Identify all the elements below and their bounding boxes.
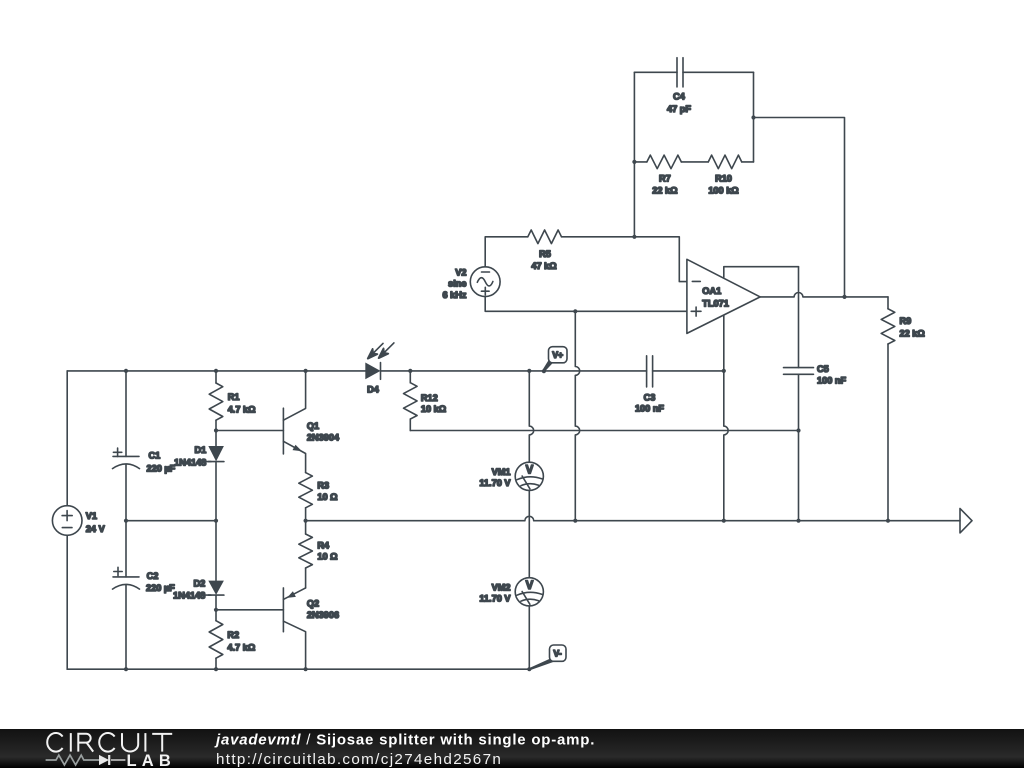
- svg-text:D2: D2: [194, 579, 206, 589]
- wire C5 column: [798, 267, 800, 521]
- svg-text:R2: R2: [227, 630, 239, 640]
- svg-text:OA1: OA1: [702, 286, 721, 296]
- junction voltmeter column / V+ rail: [527, 369, 531, 373]
- voltage source V2 sine 6 kHz: [442, 267, 500, 300]
- capacitor C4 47 pF: [667, 58, 691, 114]
- LED D4 with arrows: [365, 343, 394, 395]
- svg-text:Q2: Q2: [307, 598, 319, 608]
- node V+ flag attach: [542, 369, 546, 373]
- svg-text:1N4148: 1N4148: [173, 590, 205, 600]
- svg-text:220 µF: 220 µF: [146, 583, 175, 593]
- wire C4 feedback loop left vertical: [633, 72, 635, 237]
- svg-text:VM1: VM1: [492, 467, 511, 477]
- svg-text:D1: D1: [195, 445, 207, 455]
- junction C1-C2 / middle rail: [124, 519, 128, 523]
- svg-text:4.7 kΩ: 4.7 kΩ: [227, 642, 255, 652]
- svg-text:6 kHz: 6 kHz: [442, 290, 466, 300]
- resistor R9 22 kOhm: [881, 309, 925, 344]
- junction C2 bottom / V- rail: [124, 667, 128, 671]
- svg-text:1N4148: 1N4148: [174, 458, 206, 468]
- svg-text:VM2: VM2: [492, 582, 511, 592]
- svg-text:11.70 V: 11.70 V: [479, 478, 511, 488]
- svg-text:V2: V2: [455, 267, 466, 277]
- wire V2 to R5: [485, 237, 634, 267]
- junction R12 rail / C5 column: [796, 428, 800, 432]
- net flag V+: [543, 347, 567, 372]
- svg-text:220 µF: 220 µF: [147, 463, 176, 473]
- svg-text:47 pF: 47 pF: [667, 104, 691, 114]
- svg-text:4.7 kΩ: 4.7 kΩ: [228, 404, 256, 414]
- svg-text:R7: R7: [659, 173, 671, 183]
- svg-text:100 kΩ: 100 kΩ: [708, 186, 738, 196]
- junction Q1 collector / V+ rail: [304, 369, 308, 373]
- svg-text:TL071: TL071: [702, 298, 729, 308]
- output terminal arrow: [960, 509, 972, 533]
- svg-text:V+: V+: [552, 350, 563, 360]
- wire feedback to output: [754, 118, 845, 297]
- wire output rail (virtual ground) with hop over voltmeter column: [306, 516, 960, 520]
- svg-text:24 V: 24 V: [86, 524, 106, 534]
- svg-text:sine: sine: [448, 279, 466, 289]
- svg-text:2N3906: 2N3906: [307, 610, 339, 620]
- junction R7 left / C4 loop: [632, 160, 636, 164]
- resistor R2 4.7 kOhm: [209, 621, 255, 659]
- junction R9 bottom / output rail: [886, 519, 890, 523]
- wire C4 top branch: [634, 71, 753, 73]
- svg-text:V: V: [526, 464, 534, 476]
- junction R1 bottom / Q1 base: [214, 428, 218, 432]
- svg-text:C4: C4: [673, 92, 686, 102]
- wire R9 branch: [887, 297, 889, 521]
- voltage source V1 24 V: [52, 506, 105, 536]
- svg-text:R12: R12: [421, 393, 438, 403]
- wire voltmeter column with hop: [529, 371, 533, 669]
- resistor R5 47 kOhm: [528, 230, 562, 271]
- junction Q2 collector / V- rail: [304, 667, 308, 671]
- transistor Q2 2N3906 PNP: [283, 588, 339, 669]
- junction D2 bottom / Q2 base: [214, 608, 218, 612]
- resistor R12 10 kOhm: [404, 371, 447, 431]
- wire R7/R10 branch: [634, 161, 753, 163]
- svg-text:R5: R5: [539, 249, 551, 259]
- svg-text:http://circuitlab.com/cj274ehd: http://circuitlab.com/cj274ehd2567n: [216, 751, 502, 768]
- diode D2 1N4148: [173, 579, 224, 601]
- svg-text:22 kΩ: 22 kΩ: [652, 186, 677, 196]
- junction V2 bottom / reference vertical: [573, 309, 577, 313]
- op-amp OA1 TL071: [687, 259, 760, 333]
- transistor Q1 2N3904 NPN: [283, 371, 340, 473]
- junction V2 reference / output rail: [573, 519, 577, 523]
- svg-text:V: V: [526, 580, 534, 592]
- wire Q1 base: [216, 430, 283, 432]
- resistor R10 100 kOhm: [708, 155, 741, 196]
- wire V- bottom rail: [67, 668, 529, 670]
- capacitor C1 220 uF electrolytic: [113, 448, 176, 473]
- svg-text:11.70 V: 11.70 V: [479, 594, 511, 604]
- svg-text:10 Ω: 10 Ω: [317, 552, 337, 562]
- svg-text:R4: R4: [317, 540, 330, 550]
- wire middle rail left segment: [126, 520, 216, 522]
- svg-text:22 kΩ: 22 kΩ: [900, 328, 925, 338]
- svg-text:R3: R3: [317, 481, 329, 491]
- CircuitLab logo resistor-diode glyph: [46, 755, 126, 765]
- svg-text:C1: C1: [149, 451, 161, 461]
- junction D1-D2 / middle rail: [214, 519, 218, 523]
- svg-text:47 kΩ: 47 kΩ: [531, 261, 556, 271]
- svg-text:Q1: Q1: [307, 421, 319, 431]
- svg-text:V-: V-: [553, 649, 561, 659]
- junction R1 top / V+ rail: [214, 369, 218, 373]
- svg-text:100 nF: 100 nF: [817, 375, 846, 385]
- svg-text:100 nF: 100 nF: [635, 404, 664, 414]
- junction C4 loop right / feedback: [751, 115, 755, 119]
- svg-text:D4: D4: [367, 385, 380, 395]
- wire V+ rail (top distribution rail): [67, 370, 724, 372]
- capacitor C5 100 nF: [784, 364, 847, 386]
- capacitor C3 100 nF: [635, 356, 664, 414]
- junction R2 bottom / V- rail: [214, 667, 218, 671]
- svg-text:C2: C2: [147, 571, 159, 581]
- svg-text:R1: R1: [228, 392, 240, 402]
- junction op-amp pin column / output rail: [722, 519, 726, 523]
- svg-text:V1: V1: [86, 511, 97, 521]
- resistor R1 4.7 kOhm: [209, 383, 255, 420]
- svg-text:javadevmtl / Sijosae splitter: javadevmtl / Sijosae splitter with singl…: [214, 732, 595, 749]
- resistor R7 22 kOhm: [647, 155, 681, 196]
- wire op-amp output with hop over C5 column: [760, 292, 888, 296]
- wire inverting input route: [634, 237, 687, 282]
- junction C5 column / output rail: [796, 519, 800, 523]
- wire V1 left branch vertical: [66, 371, 68, 669]
- svg-text:C3: C3: [644, 392, 656, 402]
- wire Q2 base: [216, 609, 283, 611]
- svg-text:R9: R9: [900, 316, 912, 326]
- junction C3 right / op-amp pin column: [722, 369, 726, 373]
- voltmeter VM1 11.70 V: [479, 462, 543, 490]
- wire V2 reference vertical with hops: [575, 311, 579, 520]
- wire op-amp top pin rail: [724, 267, 799, 278]
- svg-text:C5: C5: [817, 364, 829, 374]
- voltmeter VM2 11.70 V: [479, 578, 543, 606]
- svg-text:10 kΩ: 10 kΩ: [421, 404, 446, 414]
- junction R3-R4 / output rail: [304, 519, 308, 523]
- wire R12 bottom rail: [410, 430, 798, 432]
- net flag V-: [530, 645, 566, 670]
- node V- flag attach / VM2 bottom: [527, 667, 531, 671]
- svg-text:R10: R10: [715, 173, 732, 183]
- svg-text:LAB: LAB: [127, 752, 177, 768]
- junction feedback / op-amp output: [842, 295, 846, 299]
- resistor R3 10 Ohm: [299, 473, 338, 521]
- wire diode/resistor column x=216: [215, 371, 217, 669]
- wire V2 to op-amp non-inverting input: [485, 297, 687, 312]
- wire op-amp bottom pin / C3 column with hop: [724, 315, 728, 521]
- diode D1 1N4148: [174, 445, 224, 467]
- junction C1 top / V+ rail: [124, 369, 128, 373]
- junction R5 right / inverting route: [632, 235, 636, 239]
- wire C4 loop right vertical: [753, 72, 755, 162]
- svg-text:2N3904: 2N3904: [307, 432, 340, 442]
- CircuitLab logo wordmark CIRCUIT: [47, 733, 172, 752]
- wire C1/C2 column: [125, 371, 127, 669]
- capacitor C2 220 uF electrolytic: [113, 567, 176, 593]
- resistor R4 10 Ohm: [299, 521, 338, 588]
- svg-text:10 Ω: 10 Ω: [317, 492, 337, 502]
- junction R12 top / V+ rail: [408, 369, 412, 373]
